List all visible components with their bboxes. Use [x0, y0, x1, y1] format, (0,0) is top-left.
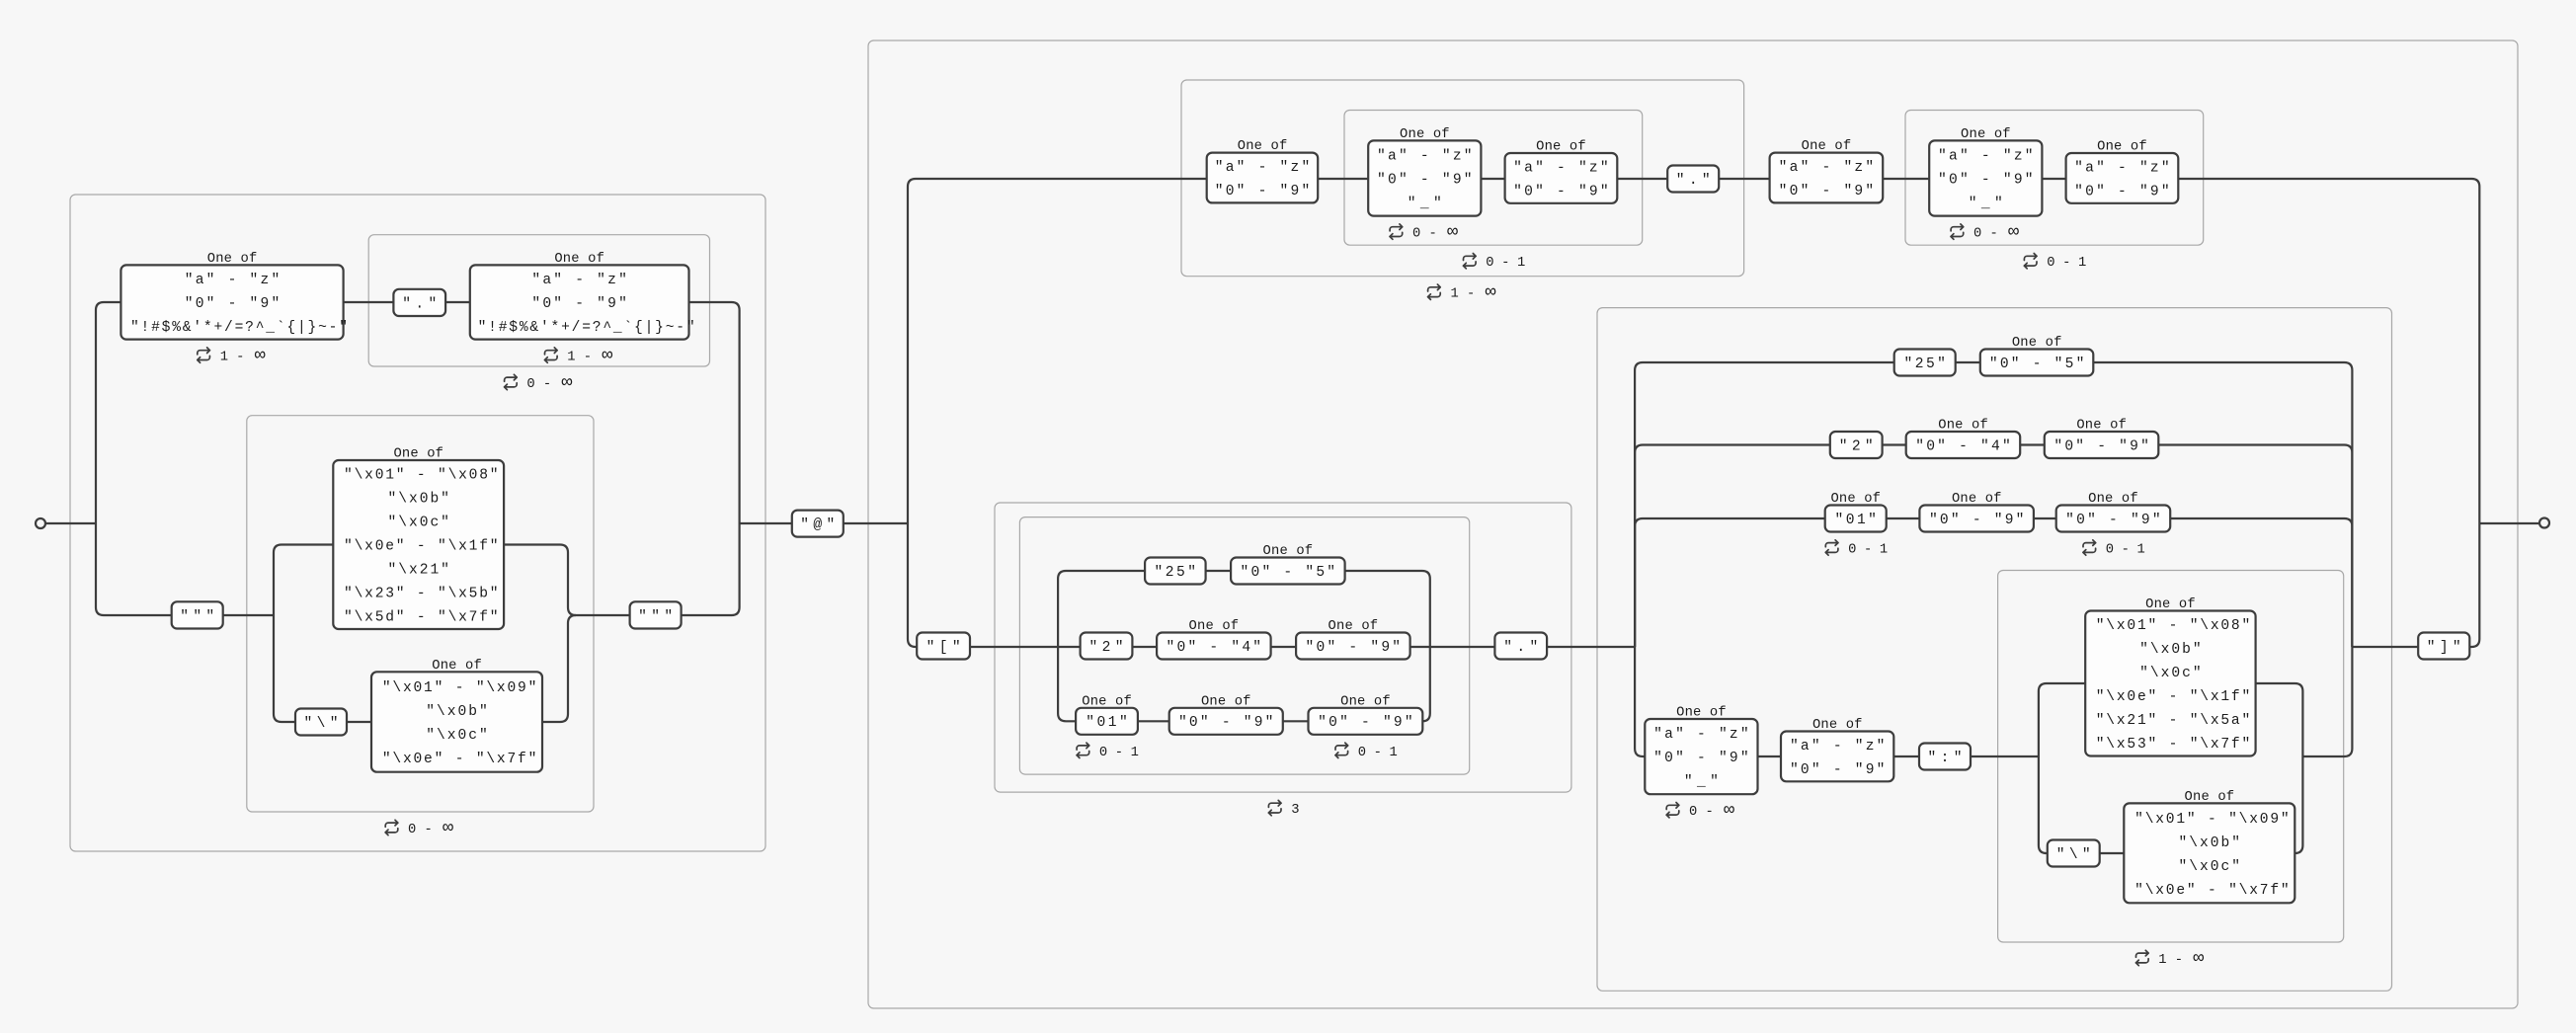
literal close bracket — [2418, 633, 2469, 660]
svg-text:One of: One of — [1340, 693, 1391, 709]
charclass 0-9 (last octet row3 a) — [1919, 506, 2033, 532]
svg-text:"a" - "z": "a" - "z" — [1513, 160, 1609, 176]
wire: last 2xx row exit — [2158, 445, 2352, 648]
svg-text:"2": "2" — [1089, 640, 1124, 656]
svg-text:"\": "\" — [304, 716, 339, 732]
svg-text:"\x01" - "\x08": "\x01" - "\x08" — [344, 467, 499, 483]
charclass quoted-pair — [371, 672, 542, 771]
svg-text:"a" - "z": "a" - "z" — [1215, 160, 1311, 176]
charclass 0-9 (octet row3 b) — [1309, 708, 1423, 735]
charclass 0-9 (last octet row3 b) — [2056, 506, 2171, 532]
svg-text:"a" - "z": "a" - "z" — [1938, 148, 2034, 164]
wire: dns-name branch exit — [2178, 179, 2479, 523]
svg-text:One of: One of — [2088, 491, 2138, 507]
wire: last 2 to 0-4 — [1883, 443, 1906, 445]
wire: last 01 to 0-9 — [1887, 517, 1920, 519]
literal close quote — [630, 601, 682, 628]
wire: first 0-9 to second 0-9 — [1283, 720, 1309, 722]
svg-text:0 - 1: 0 - 1 — [1486, 256, 1525, 271]
svg-text:"0" - "9": "0" - "9" — [1653, 751, 1749, 766]
literal backslash (domain) — [2048, 840, 2100, 867]
svg-text:"\x5d" - "\x7f": "\x5d" - "\x7f" — [344, 609, 499, 625]
quantifier 3: ipv4 octet-dot group — [1268, 800, 1299, 818]
svg-text:"0" - "9": "0" - "9" — [1178, 715, 1274, 731]
svg-text:One of: One of — [1238, 138, 1288, 154]
svg-text:"[": "[" — [926, 640, 961, 656]
svg-text:"a" - "z": "a" - "z" — [1790, 739, 1886, 755]
svg-text:"0" - "5": "0" - "5" — [1989, 357, 2085, 372]
svg-text:One of: One of — [1328, 618, 1379, 634]
charclass 0-9 (octet row3 a) — [1169, 708, 1283, 735]
svg-text:1 - ∞: 1 - ∞ — [1451, 282, 1496, 303]
charclass 0-5 (octet) — [1231, 558, 1345, 585]
charclass hostname alnum+underscore — [1645, 719, 1757, 794]
svg-text:"@": "@" — [800, 517, 835, 533]
wire: quoted bus to qtext branch — [274, 545, 333, 616]
svg-text:0 - 1: 0 - 1 — [1099, 746, 1139, 760]
svg-text:"2": "2" — [1839, 438, 1874, 454]
literal colon — [1919, 744, 1971, 770]
charclass alnum label head — [1207, 153, 1319, 203]
literal dot (domain) — [1667, 166, 1719, 193]
wire: octet bus to 25x branch — [1058, 571, 1145, 647]
svg-text:One of: One of — [2076, 418, 2127, 434]
svg-text:One of: One of — [1189, 618, 1240, 634]
wire: hostname to trailing alnum — [1758, 755, 1782, 757]
quantifier 1-inf: domain label repeat group — [1428, 282, 1496, 303]
svg-text:"0" - "9": "0" - "9" — [2053, 438, 2149, 454]
svg-text:One of: One of — [2097, 139, 2147, 155]
literal open bracket — [917, 633, 970, 660]
charclass 0-9 (octet row2) — [1296, 633, 1410, 660]
svg-text:"0" - "9": "0" - "9" — [1318, 715, 1413, 731]
charclass alnum final tail — [2066, 153, 2179, 203]
svg-text:One of: One of — [393, 446, 443, 462]
svg-text:One of: One of — [207, 251, 258, 267]
svg-text:"a" - "z": "a" - "z" — [531, 273, 627, 288]
wire: domain bus to dns-name branch — [908, 179, 1207, 523]
svg-text:One of: One of — [1400, 126, 1450, 142]
group: quoted-string content repeat (0-inf) — [247, 416, 594, 812]
charclass 0-4 (last octet) — [1906, 432, 2021, 458]
svg-text:"!#$%&'*+/=?^_`{|}~-": "!#$%&'*+/=?^_`{|}~-" — [130, 320, 348, 336]
wire: open quote to quoted content bus — [223, 614, 274, 616]
wire: octet dot to last-octet bus — [1547, 646, 1635, 648]
wire: open bracket to octet group — [970, 646, 1081, 648]
charclass alnum+underscore label interior — [1368, 140, 1481, 215]
svg-text:"a" - "z": "a" - "z" — [1377, 148, 1473, 164]
wire: last bus to 2xx row — [1635, 445, 1830, 648]
svg-text:"0" - "9": "0" - "9" — [2074, 184, 2170, 199]
svg-text:0 - ∞: 0 - ∞ — [1412, 222, 1458, 243]
wire: content bus to escape branch — [2039, 756, 2048, 853]
wire: start to local alternation bus — [45, 522, 96, 524]
literal 25 (octet) — [1145, 558, 1206, 585]
svg-text:"0" - "9": "0" - "9" — [1790, 762, 1886, 778]
charclass qtext — [333, 460, 504, 629]
quantifier 0 - 1: charclass 01 (last octet) — [1825, 540, 1888, 558]
literal 2 (octet) — [1081, 633, 1133, 660]
quantifier 1 - ∞: charclass atext second — [545, 346, 613, 366]
quantifier 0 - 1: charclass 01 (octet) — [1077, 743, 1139, 760]
svg-text:One of: One of — [1812, 717, 1863, 733]
wire: local exit bus to at-sign — [740, 522, 792, 524]
group: general-address content repeat (1-inf) — [1998, 571, 2344, 943]
end terminal — [2539, 518, 2549, 528]
svg-text:1 - ∞: 1 - ∞ — [220, 346, 266, 366]
svg-text:0 - ∞: 0 - ∞ — [526, 372, 572, 393]
wire: 01 to first 0-9 — [1138, 720, 1169, 722]
svg-text:One of: One of — [1536, 139, 1586, 155]
wire: escape branch 2 exit — [2294, 756, 2302, 853]
wire: 25 to 0-5 range — [1206, 570, 1232, 572]
svg-text:One of: One of — [1082, 693, 1132, 709]
svg-text:"0" - "9": "0" - "9" — [2065, 513, 2161, 528]
svg-text:"a" - "z": "a" - "z" — [1779, 160, 1875, 176]
group: dot-atom repeat (0-inf) — [368, 235, 709, 366]
svg-text:"0" - "9": "0" - "9" — [1306, 640, 1402, 656]
literal open quote — [172, 601, 223, 628]
wire: dot-atom branch exit — [689, 302, 740, 523]
svg-text:1 - ∞: 1 - ∞ — [567, 346, 612, 366]
group: domain alternation — [868, 40, 2518, 1008]
svg-text:0 - 1: 0 - 1 — [2106, 543, 2145, 558]
svg-text:One of: One of — [1830, 491, 1881, 507]
svg-text:3: 3 — [1291, 803, 1299, 818]
svg-text:"a" - "z": "a" - "z" — [185, 273, 281, 288]
charclass atext second — [470, 265, 695, 339]
wire: 0xx branch exit — [1422, 647, 1430, 721]
wire: at-sign to domain bus — [844, 522, 908, 524]
svg-text:"\x23" - "\x5b": "\x23" - "\x5b" — [344, 586, 499, 601]
literal dot (octets) — [1494, 633, 1547, 660]
svg-text:""": """ — [180, 609, 214, 625]
svg-text:One of: One of — [1676, 705, 1727, 721]
svg-text:"\x0e" - "\x7f": "\x0e" - "\x7f" — [2134, 883, 2290, 899]
quantifier 0-inf: quoted-string content group — [385, 818, 453, 838]
svg-text:0 - ∞: 0 - ∞ — [1689, 800, 1734, 821]
svg-text:"_": "_" — [1684, 774, 1719, 790]
quantifier 1 - ∞: charclass atext first — [198, 346, 266, 366]
literal backslash (local) — [295, 709, 347, 736]
wire: last bus to 0xx row — [1635, 518, 1825, 647]
svg-text:"_": "_" — [1408, 196, 1442, 211]
svg-text:"\x0e" - "\x1f": "\x0e" - "\x1f" — [2096, 689, 2251, 705]
quantifier 0 - ∞: charclass hostname alnum+underscore — [1666, 800, 1734, 821]
svg-text:One of: One of — [2012, 335, 2062, 351]
wire: final tail interior — [2042, 178, 2065, 180]
svg-text:"!#$%&'*+/=?^_`{|}~-": "!#$%&'*+/=?^_`{|}~-" — [478, 320, 695, 336]
svg-text:0 - ∞: 0 - ∞ — [408, 818, 453, 838]
svg-text:One of: One of — [1961, 126, 2011, 142]
svg-text:"0" - "5": "0" - "5" — [1241, 565, 1336, 581]
svg-text:"0" - "9": "0" - "9" — [1938, 172, 2034, 188]
svg-text:"0" - "9": "0" - "9" — [531, 296, 627, 312]
wire: tail group to dot literal — [1617, 178, 1667, 180]
charclass alnum+underscore final interior — [1929, 140, 2042, 215]
svg-text:"]": "]" — [2427, 640, 2461, 656]
wire: trailing alnum to colon — [1893, 755, 1919, 757]
svg-text:0 - 1: 0 - 1 — [1358, 746, 1398, 760]
svg-text:"\x01" - "\x09": "\x01" - "\x09" — [2134, 812, 2290, 828]
svg-text:0 - 1: 0 - 1 — [2047, 256, 2086, 271]
start terminal — [36, 518, 45, 528]
charclass atext first — [121, 265, 348, 339]
svg-text:One of: One of — [554, 251, 604, 267]
svg-text:".": "." — [1503, 640, 1538, 656]
wire: 2 to 0-4 range — [1132, 646, 1157, 648]
wire: 2xx branch exit to octet dot — [1410, 646, 1495, 648]
quantifier 0 - ∞: charclass alnum+underscore label interior — [1390, 222, 1458, 243]
quantifier 0-1: domain tail optional group — [2024, 254, 2086, 272]
group: domain label repeat (1-inf) — [1181, 80, 1744, 277]
wire: backslash to escaped set — [347, 721, 371, 723]
wire: colon to content bus — [1971, 755, 2039, 757]
group: domain tail optional (0-1) — [1905, 111, 2204, 246]
wire: domain exit bus to end — [2479, 522, 2539, 524]
quantifier 0 - 1: charclass 0-9 (last octet row3 b) — [2083, 540, 2145, 558]
wire: qtext branch exit — [504, 545, 629, 616]
charclass 0-9 (last octet row2) — [2045, 432, 2159, 458]
wire: quoted-string branch exit — [682, 523, 740, 615]
svg-text:One of: One of — [2145, 596, 2196, 612]
svg-text:"0" - "9": "0" - "9" — [1513, 184, 1609, 199]
wire: last 0-9 to 0-9 — [2034, 517, 2056, 519]
group: last octet / general-address alternation — [1597, 308, 2392, 992]
svg-text:":": ":" — [1928, 751, 1963, 766]
svg-text:"a" - "z": "a" - "z" — [1653, 727, 1749, 743]
charclass hostname trailing alnum — [1781, 732, 1893, 782]
svg-text:"0" - "9": "0" - "9" — [185, 296, 281, 312]
quantifier 0 - 1: charclass 0-9 (octet row3 b) — [1335, 743, 1398, 760]
svg-text:""": """ — [638, 609, 673, 625]
quantifier 0 - ∞: charclass alnum+underscore final interior — [1951, 222, 2019, 243]
wire: last 0xx row exit — [2170, 518, 2352, 647]
svg-text:"0" - "9": "0" - "9" — [1779, 184, 1875, 199]
svg-text:".": "." — [1676, 173, 1711, 189]
wire: dtext branch exit — [2256, 683, 2303, 756]
wire: 25x branch exit — [1345, 571, 1430, 647]
svg-text:"0" - "9": "0" - "9" — [1215, 184, 1311, 199]
svg-text:"\x0e" - "\x1f": "\x0e" - "\x1f" — [344, 538, 499, 554]
svg-text:"a" - "z": "a" - "z" — [2074, 160, 2170, 176]
svg-text:"0" - "4": "0" - "4" — [1167, 640, 1262, 656]
wire: final label head to final tail group — [1883, 178, 1929, 180]
group: ipv4 octet-dot repeat (3) — [995, 503, 1571, 792]
wire: close bracket to domain exit bus — [2469, 523, 2479, 647]
wire: last bus to general-address row — [1635, 647, 1645, 756]
svg-text:"\": "\" — [2056, 847, 2091, 863]
charclass 0-4 (octet) — [1157, 633, 1271, 660]
wire: quoted bus to escape branch — [274, 615, 295, 722]
literal at-sign — [792, 511, 844, 537]
charclass alnum label tail — [1505, 153, 1618, 203]
wire: escape branch exit — [542, 615, 576, 722]
svg-text:One of: One of — [1802, 138, 1852, 154]
svg-text:"\x01" - "\x08": "\x01" - "\x08" — [2096, 618, 2251, 634]
charclass 0-5 (last octet) — [1980, 350, 2094, 376]
charclass alnum final head — [1770, 153, 1884, 203]
charclass 01 (last octet) — [1825, 506, 1887, 532]
charclass quoted-pair (domain) — [2124, 803, 2294, 903]
svg-text:1 - ∞: 1 - ∞ — [2158, 948, 2204, 969]
svg-text:"0" - "9": "0" - "9" — [1929, 513, 2025, 528]
wire: dot literal to atom box — [445, 301, 470, 303]
wire: local bus to quoted-string branch — [96, 523, 172, 615]
group: local-part alternation — [70, 195, 765, 851]
wire: local bus to dot-atom branch — [96, 302, 121, 523]
svg-text:"0" - "9": "0" - "9" — [1377, 172, 1473, 188]
wire: general-address row exit — [2302, 647, 2352, 756]
quantifier 0-1: domain label optional tail group — [1464, 254, 1526, 272]
svg-text:"_": "_" — [1969, 196, 2003, 211]
charclass 01 (octet) — [1076, 708, 1138, 735]
wire: last 0-4 to 0-9 — [2020, 443, 2045, 445]
wire: last bus to 25x row — [1635, 362, 1894, 647]
svg-text:"\x21" - "\x5a": "\x21" - "\x5a" — [2096, 713, 2251, 729]
svg-text:"\x01" - "\x09": "\x01" - "\x09" — [382, 680, 536, 696]
wire: label interior to tail box — [1481, 178, 1504, 180]
wire: 0-4 to 0-9 range — [1271, 646, 1297, 648]
wire: last 25 to 0-5 — [1956, 361, 1980, 363]
svg-text:"\x0e" - "\x7f": "\x0e" - "\x7f" — [382, 752, 536, 767]
wire: backslash to escaped set 2 — [2100, 852, 2125, 854]
wire: last 25x row exit — [2093, 362, 2352, 647]
wire: dot-atom box to dot literal — [344, 301, 394, 303]
svg-text:".": "." — [402, 296, 437, 312]
svg-text:0 - 1: 0 - 1 — [1848, 543, 1888, 558]
wire: octet bus to 0xx branch — [1058, 647, 1076, 721]
wire: last-octet bus to close bracket — [2352, 646, 2418, 648]
charclass dtext — [2085, 611, 2255, 756]
svg-text:0 - ∞: 0 - ∞ — [1973, 222, 2019, 243]
svg-text:"0" - "4": "0" - "4" — [1915, 438, 2011, 454]
wire: label head to optional tail group — [1318, 178, 1368, 180]
svg-text:One of: One of — [1938, 418, 1988, 434]
group: domain label optional tail (0-1) — [1344, 111, 1643, 246]
svg-text:One of: One of — [1952, 491, 2002, 507]
svg-text:One of: One of — [1263, 543, 1314, 559]
quantifier 1-inf: general-address content group — [2136, 948, 2205, 969]
quantifier 0-inf: dot-atom repeat group — [505, 372, 573, 393]
group: octet alternation — [1019, 517, 1469, 775]
wire: dot literal to final label head — [1719, 178, 1769, 180]
svg-text:One of: One of — [2185, 789, 2235, 805]
literal 2 (last octet) — [1830, 432, 1883, 458]
svg-text:One of: One of — [432, 658, 482, 674]
literal 25 (last octet) — [1894, 350, 1956, 376]
wire: domain bus to address-literal branch — [908, 523, 919, 647]
svg-text:"\x53" - "\x7f": "\x53" - "\x7f" — [2096, 737, 2251, 753]
literal dot (local) — [393, 289, 445, 316]
svg-text:One of: One of — [1201, 693, 1251, 709]
wire: content bus to dtext branch — [2039, 683, 2085, 756]
